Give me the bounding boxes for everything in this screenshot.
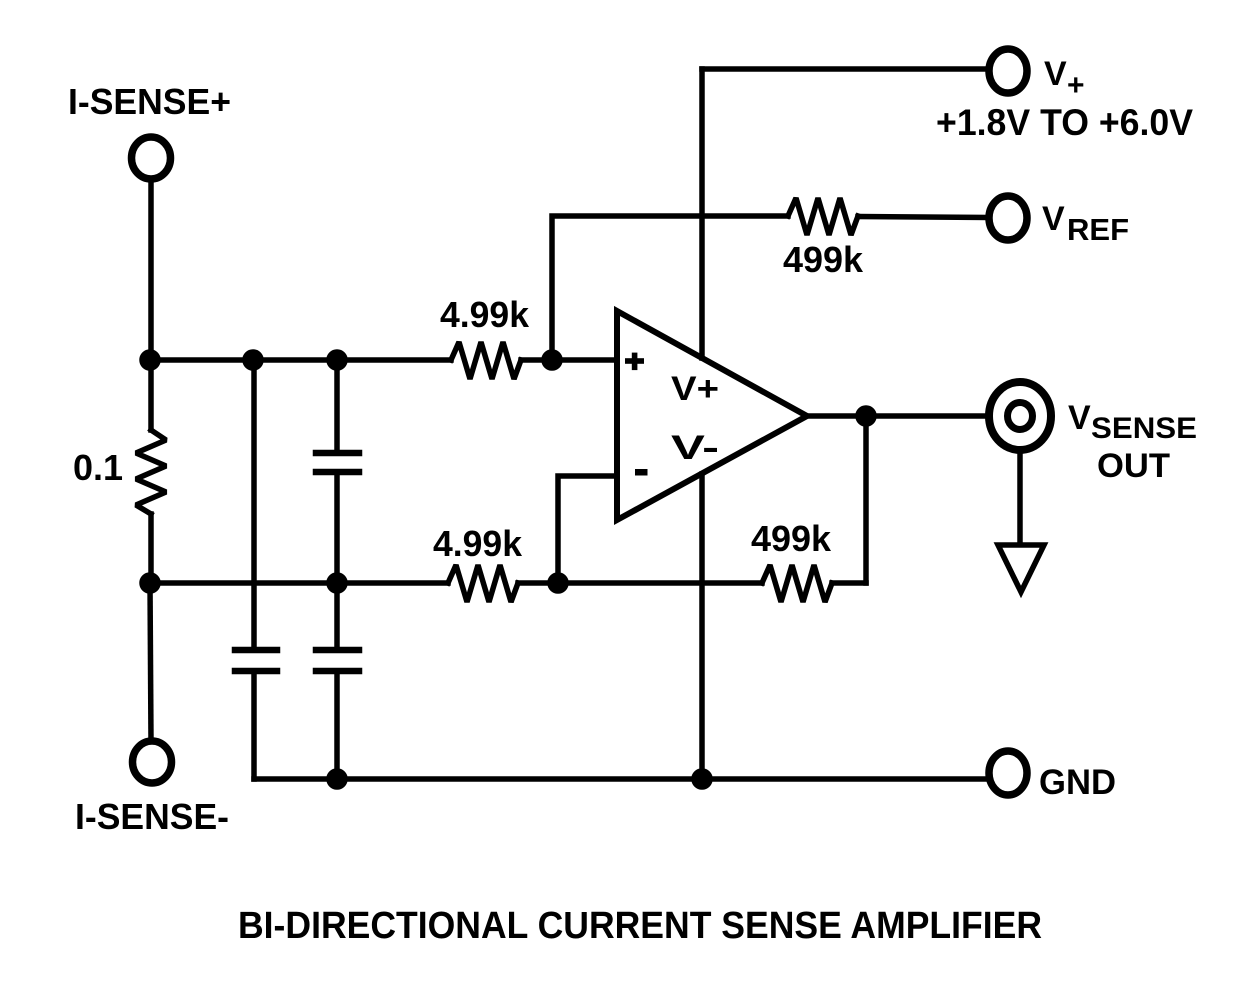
svg-text:SENSE: SENSE (1091, 412, 1197, 445)
terminal I-SENSE- (133, 741, 172, 783)
wire V+ power pin (699, 69, 705, 358)
wire bottom rail mid (518, 580, 762, 586)
wire VREF branch riser (552, 216, 788, 360)
wire top rail (150, 357, 451, 363)
svg-text:V-: V- (671, 429, 719, 467)
wire 499k to VREF terminal (858, 217, 988, 218)
svg-text:V+: V+ (671, 370, 719, 408)
svg-text:I-SENSE+: I-SENSE+ (68, 81, 231, 122)
resistor 0.1 shunt (136, 430, 166, 514)
svg-text:GND: GND (1039, 763, 1116, 802)
svg-text:REF: REF (1067, 212, 1129, 247)
svg-text:499k: 499k (751, 518, 832, 559)
svg-text:OUT: OUT (1097, 447, 1170, 485)
wire V+ rail to terminal (702, 66, 987, 72)
svg-text:V: V (1068, 399, 1091, 437)
svg-text:4.99k: 4.99k (440, 294, 530, 335)
svg-text:I-SENSE-: I-SENSE- (75, 796, 229, 837)
wire - input riser (558, 476, 616, 583)
svg-text:4.99k: 4.99k (433, 523, 523, 564)
resistor 499k vref (788, 198, 858, 235)
wire GND rail (254, 776, 986, 782)
terminal GND (989, 751, 1027, 795)
wire resistor to op-amp + input (521, 357, 616, 363)
svg-text:BI-DIRECTIONAL CURRENT SENSE A: BI-DIRECTIONAL CURRENT SENSE AMPLIFIER (238, 905, 1042, 947)
node top rail 1 (142, 352, 158, 368)
resistor 499k feedback (762, 565, 832, 602)
resistor 4.99k top (451, 342, 521, 379)
capacitor C3 bottom to ground (334, 583, 340, 647)
terminal VREF (989, 196, 1027, 240)
node top rail 2 (245, 352, 261, 368)
wire I-SENSE+ to top rail (148, 180, 154, 360)
wire V- power pin to gnd (699, 474, 705, 779)
node bottom rail 1 (142, 575, 158, 591)
terminal V+ (989, 49, 1027, 93)
node GND rail 2 (694, 771, 710, 787)
node output junction (858, 408, 874, 424)
op-amp U1 (617, 311, 807, 520)
resistor 4.99k bottom (448, 565, 518, 602)
terminal VSENSE OUT inner (1008, 403, 1033, 430)
svg-text:499k: 499k (783, 239, 864, 280)
label op-amp plus input (625, 353, 644, 371)
terminal I-SENSE+ (132, 137, 171, 179)
capacitor C2 left to ground (251, 360, 257, 647)
node bottom rail 2 (329, 575, 345, 591)
ground symbol (998, 545, 1044, 592)
wire 0.1 top lead (148, 360, 154, 430)
node GND rail 1 (329, 771, 345, 787)
svg-text:V: V (1042, 200, 1065, 238)
wire feedback drop (863, 416, 869, 583)
svg-text:+1.8V TO +6.0V: +1.8V TO +6.0V (936, 102, 1193, 143)
wire op-amp output (807, 413, 985, 419)
wire I-SENSE- lead (150, 583, 151, 741)
wire 0.1 bottom lead (148, 514, 154, 583)
svg-text:+: + (1067, 69, 1085, 102)
wire VSENSE to ground symbol (1017, 453, 1023, 545)
svg-text:V: V (1044, 55, 1067, 93)
node + input junction (544, 352, 560, 368)
wire bottom rail right (832, 580, 866, 586)
node - input junction (550, 575, 566, 591)
node top rail 3 (329, 352, 345, 368)
capacitor C1 top between rails (334, 360, 340, 450)
label op-amp minus input (635, 469, 648, 476)
terminal VSENSE OUT outer (989, 382, 1051, 450)
svg-text:0.1: 0.1 (73, 447, 123, 488)
wire bottom rail left (150, 580, 448, 586)
